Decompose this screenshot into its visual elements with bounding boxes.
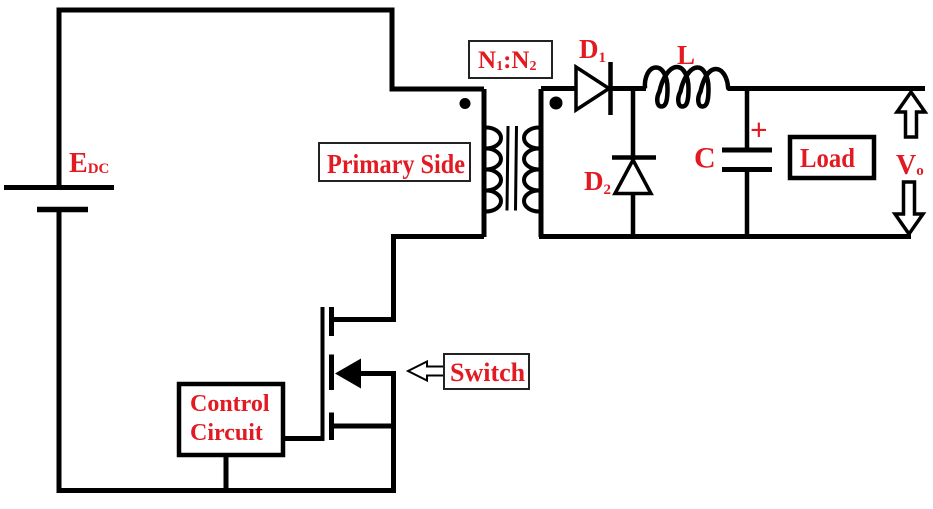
wire: control circuit to bottom rail — [224, 455, 229, 490]
channel bar bottom — [329, 413, 334, 441]
wire: bottom rail left — [57, 488, 397, 493]
wire: battery negative down the left side — [57, 209, 62, 493]
transformer T1 primary winding — [484, 89, 501, 237]
wire: D1 cathode to inductor, with node down to D2 — [610, 86, 646, 91]
svg-text:+: + — [750, 112, 768, 147]
wire: gate lead from control circuit — [285, 436, 323, 441]
svg-text:Switch: Switch — [450, 358, 526, 387]
transformer core — [507, 126, 517, 211]
channel bar middle — [329, 355, 334, 391]
svg-text:N1:N2: N1:N2 — [478, 47, 536, 74]
svg-text:Circuit: Circuit — [190, 420, 263, 446]
body lead — [356, 371, 396, 376]
source lead — [331, 424, 396, 429]
source down to bottom rail — [391, 374, 396, 494]
label box N1:N2 — [469, 41, 552, 78]
switch callout arrow (hollow) — [408, 362, 445, 381]
wire: primary bottom to MOSFET drain — [396, 234, 484, 239]
transistor Q1 (MOSFET switch) — [323, 307, 397, 493]
body arrow — [335, 359, 361, 389]
battery E_DC — [4, 188, 114, 210]
capacitor C — [722, 89, 772, 240]
drain lead — [331, 317, 396, 322]
wire: secondary bottom rail — [539, 234, 911, 239]
secondary polarity dot — [550, 97, 563, 110]
node: junction D1/L/D2 — [631, 86, 636, 160]
svg-text:C: C — [694, 142, 716, 175]
svg-text:Load: Load — [800, 143, 855, 173]
gate electrode — [321, 307, 325, 441]
Vo up arrow — [897, 92, 925, 137]
load box — [790, 137, 874, 178]
wire: secondary top to D1 anode — [541, 86, 577, 91]
label box Primary Side — [319, 143, 470, 181]
control circuit box — [179, 384, 283, 455]
svg-text:L: L — [677, 40, 695, 70]
wire: inductor to output top rail — [728, 86, 925, 91]
diode D1 — [576, 62, 611, 115]
primary polarity dot — [460, 98, 471, 109]
svg-text:Primary Side: Primary Side — [327, 149, 465, 179]
label box Switch — [444, 354, 529, 389]
Vo down arrow — [895, 182, 923, 234]
channel bar top — [329, 307, 334, 336]
wire: top rail from battery to primary step — [59, 10, 484, 187]
diode D2 — [612, 158, 656, 240]
transformer T1 secondary winding — [524, 89, 541, 237]
svg-text:Control: Control — [190, 391, 270, 417]
inductor L — [645, 67, 729, 107]
